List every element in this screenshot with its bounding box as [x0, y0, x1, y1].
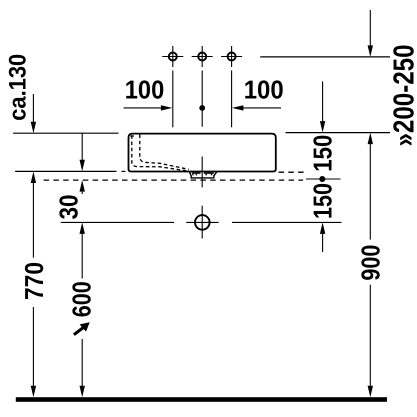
svg-text:770: 770	[19, 262, 49, 300]
svg-text:900: 900	[355, 245, 385, 281]
dimension ca.130: shaft	[32, 94, 34, 124]
fixing level dashed line	[44, 179, 303, 181]
svg-text:ca.130: ca.130	[5, 54, 32, 121]
dimension 100 right: line	[241, 107, 281, 109]
drain circle crosshair horizontal	[186, 221, 218, 223]
dimension 900: up arrowhead at rim line	[368, 133, 373, 145]
mounting level dashed continuation right of basin	[279, 171, 308, 173]
dimension 150/150 middle dot	[319, 176, 325, 182]
dimension 100 left: arrowhead	[161, 105, 173, 110]
washbasin inner rim dash	[130, 135, 136, 137]
dimension 770: up arrowhead at mounting line	[31, 172, 36, 184]
dimension 150 lower: shaft	[322, 232, 324, 252]
dimension 770: down arrowhead at floor	[31, 386, 36, 398]
dimension 900: upper shaft	[369, 142, 371, 240]
svg-text:30: 30	[53, 195, 83, 220]
washbasin inner bowl profile outer dashed line	[132, 135, 187, 171]
drain trap outline	[189, 172, 217, 178]
dimension 600: lower shaft	[81, 339, 83, 390]
dimension 900: down arrowhead at floor	[368, 386, 373, 398]
dimension 30: down arrowhead	[80, 160, 85, 172]
washbasin outer profile	[129, 134, 276, 172]
drain circle crosshair vertical	[201, 206, 203, 239]
extension line below center circle	[201, 71, 203, 127]
drain centerline horizontal left segment	[61, 221, 174, 223]
dimension 100 right: arrowhead	[232, 105, 244, 110]
mounting level line left of basin	[15, 170, 116, 172]
dimension 770: upper shaft	[32, 181, 34, 258]
rim level reference line left	[13, 132, 118, 134]
extension line below right circle	[231, 71, 233, 128]
dimension 200-250: upper shaft	[369, 10, 371, 47]
rim level reference line right	[286, 132, 391, 134]
dimension 200-250: down arrowhead	[368, 45, 373, 57]
centerline through trap	[201, 157, 203, 188]
faucet hole circle center	[192, 46, 213, 67]
dimension 100 left: line	[124, 107, 164, 109]
extension line below left circle	[172, 71, 174, 128]
wall reference line top right	[260, 56, 390, 58]
dimension 150 upper: down arrowhead	[320, 121, 325, 133]
dimension 600: adjustable-height arrow symbol	[74, 322, 90, 334]
mounting level short dash before basin	[122, 170, 126, 172]
drain centerline horizontal right segment	[232, 221, 342, 223]
svg-text:»200-250: »200-250	[389, 45, 417, 147]
dimension 100/100 center dot	[199, 105, 205, 111]
faucet hole circle right	[221, 46, 242, 67]
dimension 30: lower stub	[81, 190, 83, 194]
dimension 900: lower shaft	[369, 285, 371, 390]
svg-text:150: 150	[307, 135, 337, 172]
faucet hole circle left	[162, 46, 183, 67]
dimension 600: down arrowhead at floor	[80, 386, 85, 398]
dimension 150 lower: up arrowhead	[320, 222, 325, 234]
dimension ca.130: down arrowhead	[31, 122, 36, 134]
washbasin inner bowl profile inner dashed line	[140, 135, 189, 170]
dimension 770: lower shaft	[32, 307, 34, 390]
dimension 150 upper: shaft	[322, 81, 324, 123]
svg-text:600: 600	[66, 281, 96, 317]
dimension 600: upper shaft	[81, 232, 83, 279]
dimension 600: up arrowhead at drain centerline	[80, 222, 85, 234]
drain circle	[195, 215, 210, 230]
drain trap inner ticks	[192, 172, 201, 173]
fixing level solid tick right	[306, 178, 341, 180]
svg-text:100: 100	[125, 75, 165, 105]
svg-text:100: 100	[244, 75, 284, 105]
svg-text:150: 150	[307, 183, 337, 219]
dimension 30: up arrowhead	[80, 180, 85, 192]
floor line	[16, 397, 387, 402]
dimension 30: upper shaft from rim line	[81, 133, 83, 162]
